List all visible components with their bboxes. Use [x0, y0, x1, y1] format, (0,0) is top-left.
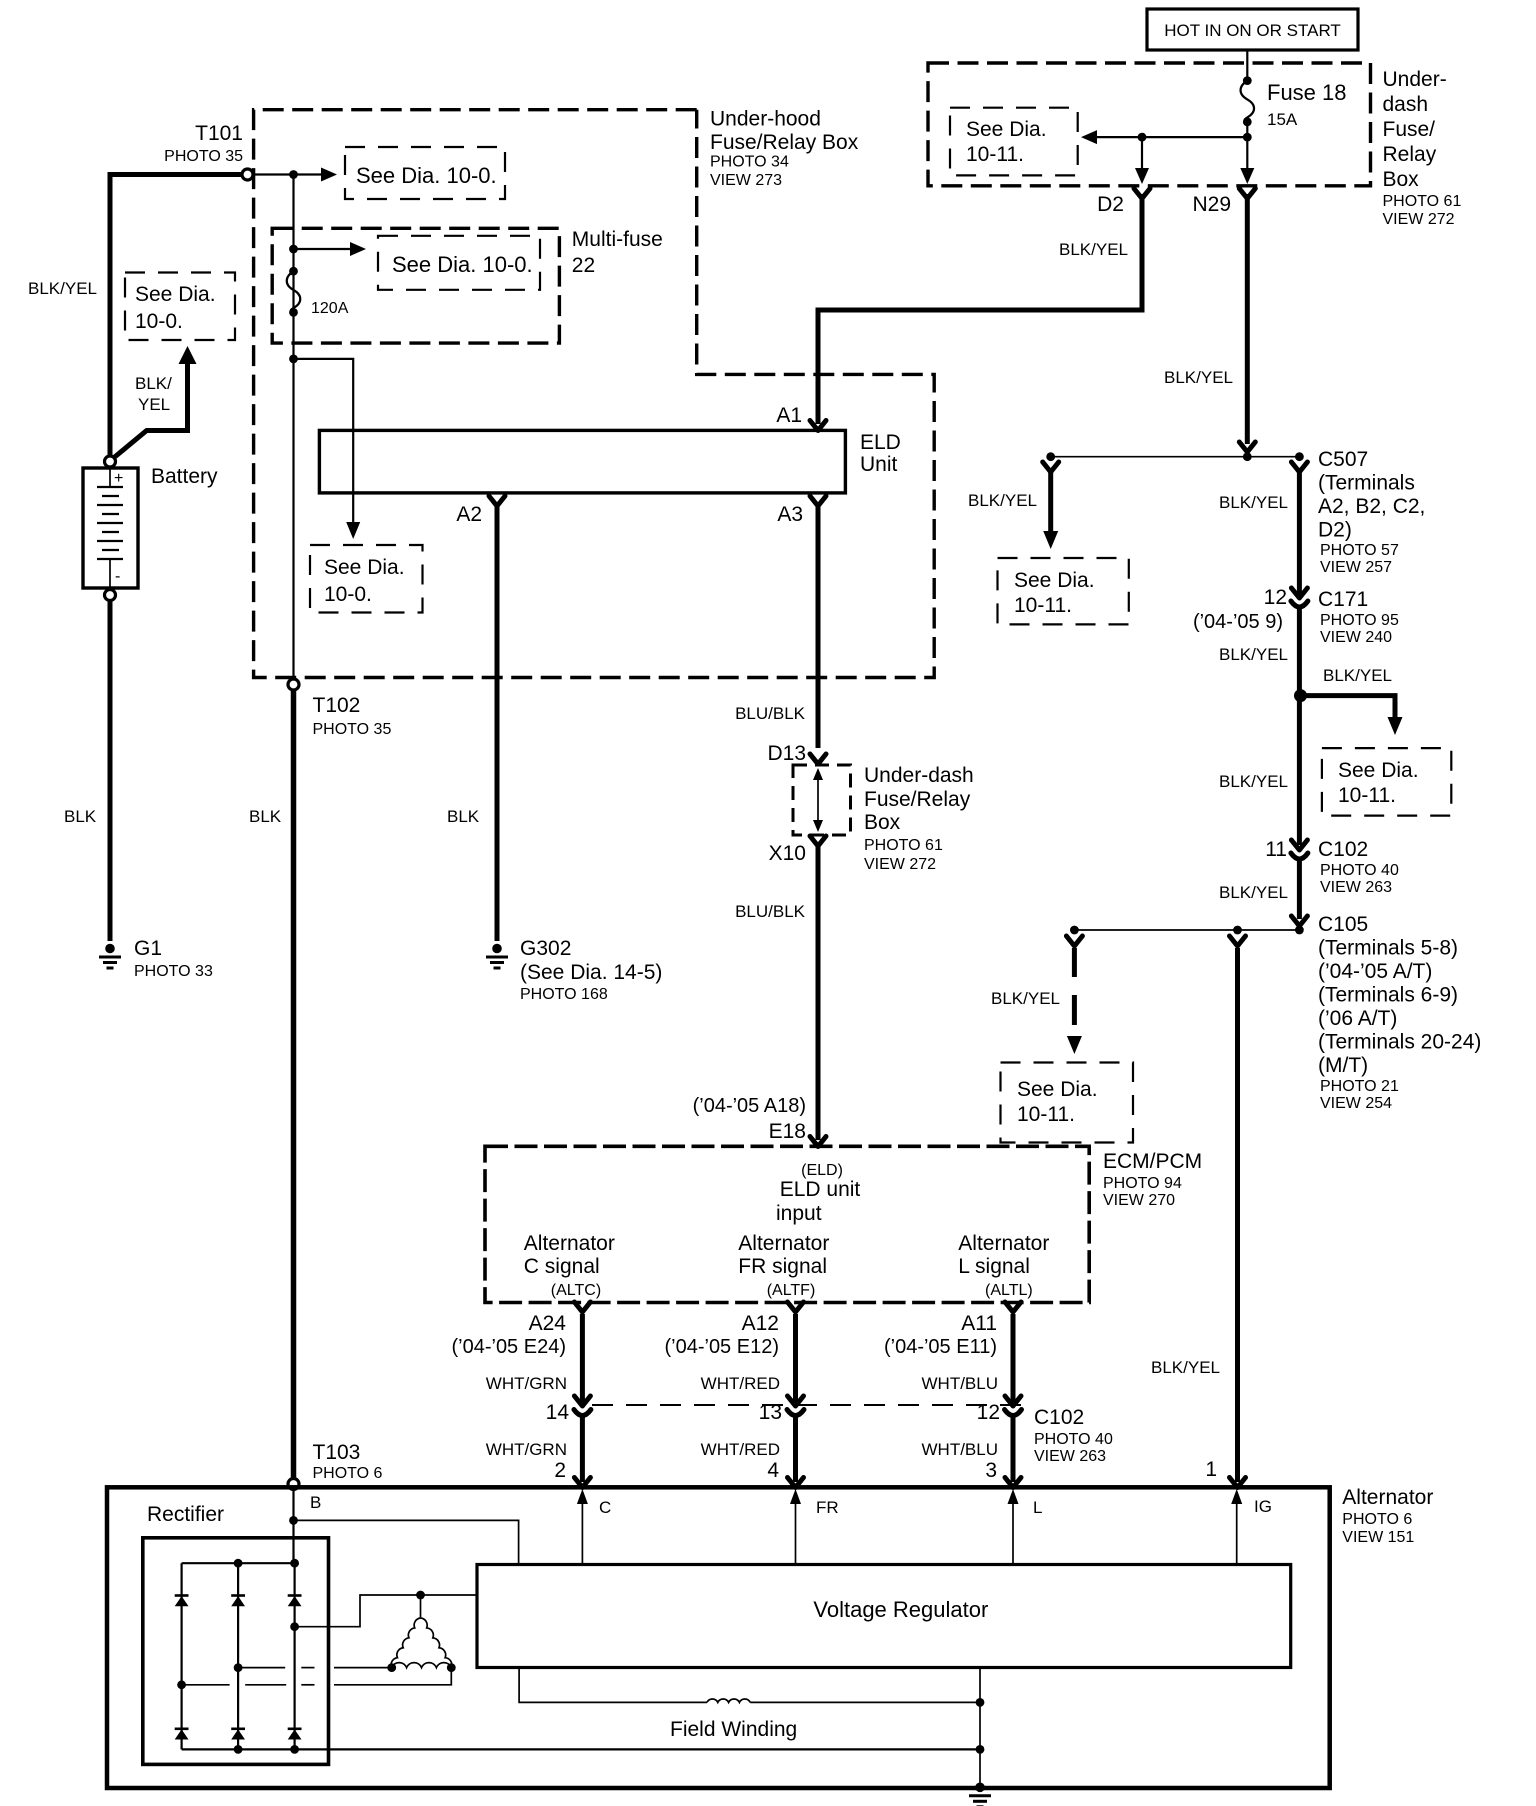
under-dash fuse/relay box (dashed outline)	[928, 63, 1371, 186]
See Dia. 10-11. reference box (branch 1)	[998, 558, 1129, 624]
svg-text:dash: dash	[1383, 93, 1429, 116]
chevron at alternator C terminal	[574, 1478, 590, 1488]
arrow VR to IG terminal	[1236, 1502, 1238, 1565]
dashed arrow down to See Dia. 10-11. (ECM branch)	[1072, 948, 1077, 977]
wire C102 to C105 line	[1297, 858, 1302, 919]
arrow VR to FR terminal	[795, 1502, 797, 1565]
svg-text:BLK: BLK	[447, 807, 480, 826]
svg-text:T102: T102	[313, 694, 361, 717]
svg-text:HOT IN ON OR START: HOT IN ON OR START	[1164, 21, 1341, 40]
svg-text:Fuse/: Fuse/	[1383, 118, 1436, 141]
svg-text:PHOTO 35: PHOTO 35	[164, 148, 243, 165]
svg-text:Field Winding: Field Winding	[670, 1718, 797, 1741]
wire bottom rail to ground node	[295, 1748, 980, 1750]
See Dia. 10-0. reference box (multi-fuse)	[378, 236, 540, 290]
svg-text:12: 12	[1264, 586, 1287, 609]
svg-text:(ALTC): (ALTC)	[551, 1282, 601, 1299]
arrow down to See Dia. 10-11. (left branch)	[1048, 468, 1053, 533]
svg-text:C: C	[599, 1498, 611, 1517]
svg-text:BLK: BLK	[64, 807, 97, 826]
double arrow inside pass-through box	[817, 774, 819, 826]
connector pin A2 chevron	[489, 496, 505, 506]
connector C102 pin 13 chevrons	[788, 1396, 804, 1406]
node junction col2 to stator	[234, 1663, 243, 1672]
svg-text:15A: 15A	[1267, 110, 1298, 129]
ground G302	[486, 944, 508, 968]
svg-text:PHOTO 61: PHOTO 61	[864, 837, 943, 854]
See Dia. 10-11. reference box (fuse 18)	[950, 108, 1078, 176]
svg-text:1: 1	[1205, 1458, 1217, 1481]
arrow VR to C terminal	[581, 1502, 583, 1565]
svg-text:D2): D2)	[1318, 519, 1352, 542]
svg-text:WHT/BLU: WHT/BLU	[922, 1440, 999, 1459]
svg-text:D13: D13	[767, 742, 806, 765]
under-dash fuse/relay pass-through box (small dashed)	[793, 765, 851, 835]
svg-text:See Dia.: See Dia.	[1338, 759, 1419, 782]
svg-text:(ALTL): (ALTL)	[985, 1282, 1033, 1299]
svg-text:BLK/YEL: BLK/YEL	[1219, 772, 1288, 791]
svg-text:(’04-’05 A18): (’04-’05 A18)	[693, 1095, 806, 1117]
svg-text:A12: A12	[742, 1312, 779, 1335]
ground G1	[99, 944, 121, 968]
svg-text:PHOTO 6: PHOTO 6	[1342, 1511, 1412, 1528]
svg-text:G1: G1	[134, 937, 162, 960]
svg-text:VIEW 272: VIEW 272	[864, 856, 936, 873]
svg-text:WHT/RED: WHT/RED	[701, 1374, 780, 1393]
svg-text:VIEW 263: VIEW 263	[1034, 1448, 1106, 1465]
svg-text:BLK/YEL: BLK/YEL	[1164, 368, 1233, 387]
svg-text:input: input	[776, 1202, 822, 1225]
connector pin A1 chevron	[810, 421, 826, 431]
svg-text:(’04-’05 E12): (’04-’05 E12)	[664, 1336, 779, 1358]
See Dia. 10-11. reference box (branch 2)	[1322, 748, 1451, 816]
svg-text:3: 3	[985, 1459, 997, 1482]
wire fuse to N29 with junction	[1246, 122, 1248, 170]
wire B from T103 into rectifier	[292, 1490, 294, 1564]
svg-text:Under-dash: Under-dash	[864, 764, 974, 787]
alternator box	[107, 1487, 1330, 1788]
svg-text:See Dia. 10-0.: See Dia. 10-0.	[392, 252, 533, 277]
chevron branch to See Dia (left of C507)	[1043, 462, 1059, 472]
chevron at alternator IG terminal	[1230, 1478, 1246, 1488]
svg-text:+: +	[114, 470, 123, 487]
svg-text:(’04-’05 A/T): (’04-’05 A/T)	[1318, 960, 1432, 983]
svg-text:PHOTO 95: PHOTO 95	[1320, 612, 1399, 629]
svg-text:Under-: Under-	[1383, 68, 1447, 91]
svg-text:L: L	[1033, 1498, 1042, 1517]
arrowhead into See Dia. 10-0. box	[321, 168, 337, 182]
connector pin E18 chevron at ECM	[810, 1137, 826, 1147]
svg-text:4: 4	[767, 1459, 779, 1482]
svg-text:A1: A1	[776, 404, 802, 427]
svg-text:Under-hood: Under-hood	[710, 108, 821, 131]
wire from HOT feed down to fuse 18	[1246, 50, 1248, 81]
svg-text:Box: Box	[1383, 168, 1420, 191]
junction terminal T103	[288, 1479, 299, 1490]
svg-text:(’04-’05 E24): (’04-’05 E24)	[451, 1336, 566, 1358]
svg-text:Alternator: Alternator	[1342, 1486, 1433, 1509]
svg-text:Alternator: Alternator	[738, 1232, 829, 1255]
voltage regulator box	[477, 1565, 1291, 1668]
chevron trunk end at C105	[1291, 916, 1307, 926]
svg-text:10-11.: 10-11.	[1017, 1103, 1075, 1126]
ECM/PCM box (dashed)	[485, 1146, 1089, 1302]
svg-text:C171: C171	[1318, 588, 1368, 611]
HOT IN ON OR START box	[1147, 9, 1358, 50]
wire C507 tie line	[1051, 456, 1300, 458]
ELD unit box	[319, 430, 845, 493]
svg-text:PHOTO 61: PHOTO 61	[1383, 193, 1462, 210]
svg-text:(Terminals 20-24): (Terminals 20-24)	[1318, 1031, 1481, 1054]
svg-text:BLU/BLK: BLU/BLK	[735, 704, 806, 723]
svg-text:G302: G302	[520, 937, 571, 960]
svg-text:VIEW 273: VIEW 273	[710, 172, 782, 189]
svg-text:(’06 A/T): (’06 A/T)	[1318, 1007, 1397, 1030]
svg-text:PHOTO 34: PHOTO 34	[710, 154, 789, 171]
svg-text:-: -	[115, 568, 120, 585]
field winding coil	[707, 1699, 750, 1702]
svg-text:ELD: ELD	[860, 431, 901, 454]
See Dia. 10-0. reference box (battery)	[125, 273, 235, 341]
svg-text:11: 11	[1265, 838, 1287, 861]
svg-text:VIEW 263: VIEW 263	[1320, 879, 1392, 896]
wire A11 to C102 pin 12 (WHT/BLU)	[1011, 1314, 1016, 1404]
svg-text:10-11.: 10-11.	[966, 143, 1024, 166]
chevron C105 middle branch (IG feed)	[1230, 936, 1246, 946]
svg-text:(ALTF): (ALTF)	[767, 1282, 816, 1299]
svg-text:PHOTO 35: PHOTO 35	[313, 721, 392, 738]
svg-text:WHT/RED: WHT/RED	[701, 1440, 780, 1459]
wire C105 tie line	[1074, 929, 1299, 931]
svg-text:2: 2	[554, 1459, 566, 1482]
svg-text:(Terminals 6-9): (Terminals 6-9)	[1318, 984, 1458, 1007]
wire trunk C507 to C171 (BLK/YEL)	[1297, 468, 1302, 596]
svg-text:BLK/YEL: BLK/YEL	[968, 491, 1037, 510]
wire N29 down to C507 tie point (BLK/YEL)	[1245, 194, 1250, 444]
wire apex tap down to delta apex	[420, 1595, 422, 1618]
node junction stator apex tap	[416, 1591, 425, 1600]
See Dia. 10-0. reference box (top)	[345, 147, 505, 199]
diode D5 (lower col2)	[231, 1729, 245, 1740]
svg-text:WHT/GRN: WHT/GRN	[486, 1440, 567, 1459]
svg-text:BLU/BLK: BLU/BLK	[735, 902, 806, 921]
wire ELD A3 to D13 (BLU/BLK)	[816, 503, 821, 748]
field winding wire from VR	[519, 1668, 707, 1703]
connector C102 inline chevrons (trunk)	[1291, 840, 1307, 850]
diode D6 (lower col3)	[288, 1729, 302, 1740]
battery positive terminal circle	[105, 456, 116, 467]
svg-text:PHOTO 33: PHOTO 33	[134, 963, 213, 980]
chevron at alternator FR terminal	[788, 1478, 804, 1488]
svg-text:BLK/YEL: BLK/YEL	[1151, 1358, 1220, 1377]
svg-text:WHT/BLU: WHT/BLU	[922, 1374, 999, 1393]
svg-text:BLK/YEL: BLK/YEL	[1219, 493, 1288, 512]
svg-text:PHOTO 40: PHOTO 40	[1034, 1431, 1113, 1448]
rectifier column 1	[181, 1563, 183, 1749]
svg-text:D2: D2	[1097, 193, 1124, 216]
branch arrow right to See Dia. 10-11.	[1301, 696, 1396, 719]
chevron N29 wire end at C507	[1239, 442, 1255, 452]
svg-text:VIEW 272: VIEW 272	[1383, 211, 1455, 228]
svg-text:(ELD): (ELD)	[801, 1162, 843, 1179]
svg-text:A2: A2	[456, 503, 482, 526]
wire col2 to delta left corner (with crossover gaps)	[238, 1667, 285, 1669]
wire junction down to D2	[1141, 137, 1143, 170]
svg-text:T103: T103	[313, 1441, 361, 1464]
svg-text:Box: Box	[864, 811, 901, 834]
svg-text:Rectifier: Rectifier	[147, 1503, 224, 1526]
wire X10 to E18 (BLU/BLK)	[816, 843, 821, 1140]
svg-text:BLK: BLK	[249, 807, 282, 826]
svg-text:10-11.: 10-11.	[1338, 784, 1396, 807]
stator delta winding	[391, 1618, 420, 1668]
svg-text:VIEW 257: VIEW 257	[1320, 559, 1392, 576]
svg-text:VIEW 270: VIEW 270	[1103, 1192, 1175, 1209]
wire C171 to BLK/YEL junction	[1297, 606, 1302, 845]
svg-text:See Dia.: See Dia.	[966, 118, 1047, 141]
chevron at alternator L terminal	[1005, 1478, 1021, 1488]
wire branch down from T101 line to multi-fuse	[292, 175, 294, 680]
svg-text:PHOTO 57: PHOTO 57	[1320, 542, 1399, 559]
wire field winding to ground node	[750, 1701, 980, 1703]
svg-text:120A: 120A	[311, 300, 349, 317]
svg-text:(Terminals: (Terminals	[1318, 472, 1415, 495]
svg-text:FR: FR	[816, 1498, 839, 1517]
svg-text:14: 14	[546, 1401, 570, 1424]
wire D2 to ELD A1 (BLK/YEL)	[818, 194, 1142, 424]
node junction col1 to stator	[177, 1680, 186, 1689]
connector pin A11 chevron	[1005, 1302, 1021, 1312]
arrow VR to L terminal	[1012, 1502, 1014, 1565]
svg-text:PHOTO 40: PHOTO 40	[1320, 862, 1399, 879]
svg-text:T101: T101	[195, 122, 243, 145]
connector C171 inline chevrons	[1291, 588, 1307, 598]
svg-text:C507: C507	[1318, 448, 1368, 471]
svg-text:BLK/YEL: BLK/YEL	[1059, 240, 1128, 259]
svg-text:BLK/YEL: BLK/YEL	[1219, 883, 1288, 902]
rectifier column 2	[237, 1563, 239, 1749]
wire branch to See Dia. 10-0. arrow (down through ELD box)	[294, 359, 354, 523]
battery symbol	[83, 467, 138, 589]
svg-text:A2, B2, C2,: A2, B2, C2,	[1318, 495, 1425, 518]
battery arrow to See Dia. (BLK/YEL)	[111, 362, 188, 460]
svg-text:Unit: Unit	[860, 453, 898, 476]
rectifier top rail	[182, 1562, 295, 1564]
wire col3 to stator apex and VR	[295, 1595, 477, 1627]
svg-text:Fuse/Relay: Fuse/Relay	[864, 788, 971, 811]
svg-text:PHOTO 168: PHOTO 168	[520, 986, 608, 1003]
wire battery positive to T101 (BLK/YEL)	[110, 175, 243, 462]
svg-text:(Terminals 5-8): (Terminals 5-8)	[1318, 937, 1458, 960]
svg-text:BLK/YEL: BLK/YEL	[28, 279, 97, 298]
svg-text:(’04-’05 E11): (’04-’05 E11)	[884, 1336, 997, 1358]
node junction above D2	[1138, 133, 1147, 142]
node junction dot (branch to See Dia)	[1294, 689, 1307, 702]
node junction B tap	[289, 1516, 298, 1525]
svg-text:BLK/YEL: BLK/YEL	[1323, 666, 1392, 685]
svg-text:C105: C105	[1318, 913, 1368, 936]
svg-text:VIEW 151: VIEW 151	[1342, 1529, 1414, 1546]
node junction multi-fuse tap	[289, 245, 298, 254]
See Dia. 10-0. reference box (lower)	[310, 545, 423, 613]
svg-text:(M/T): (M/T)	[1318, 1054, 1368, 1077]
multi-fuse 22 box (dashed)	[272, 228, 559, 343]
wire A24 to C102 pin 14 (WHT/GRN)	[580, 1314, 585, 1404]
rectifier column 3	[294, 1563, 296, 1749]
battery negative terminal circle	[105, 590, 116, 601]
svg-text:PHOTO 6: PHOTO 6	[313, 1465, 383, 1482]
wire VR to ground	[979, 1668, 981, 1788]
node junction at x293 y174	[289, 170, 298, 179]
connector C102 dashed tie line	[592, 1404, 1030, 1406]
svg-text:WHT/GRN: WHT/GRN	[486, 1374, 567, 1393]
svg-text:Alternator: Alternator	[524, 1232, 615, 1255]
rectifier box	[143, 1538, 329, 1765]
svg-text:Voltage Regulator: Voltage Regulator	[813, 1597, 988, 1622]
chevron C105 left branch	[1066, 936, 1082, 946]
svg-text:See Dia.: See Dia.	[135, 283, 216, 306]
svg-text:Multi-fuse: Multi-fuse	[572, 228, 663, 251]
diode D3 (upper col3)	[288, 1596, 302, 1607]
svg-text:10-11.: 10-11.	[1014, 594, 1072, 617]
wire B tap to voltage regulator	[294, 1520, 519, 1564]
svg-text:ELD unit: ELD unit	[780, 1178, 861, 1201]
wire col1 to delta right corner (with crossover gaps)	[182, 1684, 230, 1686]
svg-text:BLK/YEL: BLK/YEL	[1219, 645, 1288, 664]
svg-text:10-0.: 10-0.	[324, 583, 372, 606]
fuse 120A element	[289, 267, 298, 276]
junction terminal T102	[288, 679, 299, 690]
rectifier bottom rail	[182, 1748, 295, 1750]
connector pin D13 chevron	[810, 754, 826, 764]
connector pin N29 chevron	[1239, 189, 1255, 199]
svg-text:Relay: Relay	[1383, 143, 1437, 166]
svg-text:A3: A3	[777, 503, 803, 526]
svg-text:C signal: C signal	[524, 1255, 600, 1278]
diode D1 (upper col1)	[175, 1596, 189, 1607]
wire C105 to alternator IG (BLK/YEL)	[1235, 948, 1240, 1482]
svg-text:22: 22	[572, 254, 595, 277]
svg-text:N29: N29	[1192, 193, 1231, 216]
svg-text:Alternator: Alternator	[958, 1232, 1049, 1255]
svg-text:C102: C102	[1318, 838, 1368, 861]
svg-text:IG: IG	[1254, 1497, 1272, 1516]
svg-text:BLK/YEL: BLK/YEL	[991, 989, 1060, 1008]
connector pin X10 chevron	[810, 836, 826, 846]
fuse F18 element	[1241, 81, 1255, 122]
connector C102 pin 14 chevrons	[574, 1396, 590, 1406]
svg-text:10-0.: 10-0.	[135, 310, 183, 333]
diode D4 (lower col1)	[175, 1729, 189, 1740]
svg-text:X10: X10	[769, 842, 806, 865]
svg-text:See Dia. 10-0.: See Dia. 10-0.	[356, 163, 497, 188]
svg-text:PHOTO 94: PHOTO 94	[1103, 1175, 1182, 1192]
svg-text:PHOTO 21: PHOTO 21	[1320, 1078, 1399, 1095]
wire A12 to C102 pin 13 (WHT/RED)	[793, 1314, 798, 1404]
svg-text:See Dia.: See Dia.	[324, 556, 405, 579]
wire fuse node to See Dia. 10-11. arrow	[1096, 136, 1247, 138]
ground (alternator case)	[969, 1783, 991, 1806]
wire T102 to T103 (BLK)	[291, 690, 297, 1479]
svg-text:VIEW 254: VIEW 254	[1320, 1095, 1392, 1112]
svg-text:C102: C102	[1034, 1406, 1084, 1429]
under-hood fuse/relay box (dashed outline)	[254, 110, 935, 678]
wire pin 13 to alternator FR (WHT/RED)	[793, 1414, 798, 1482]
wire T101 to See Dia. 10-0. arrow	[253, 173, 322, 175]
svg-text:A24: A24	[529, 1312, 567, 1335]
wire pin 12 to alternator L (WHT/BLU)	[1011, 1414, 1016, 1482]
connector C102 pin 12 chevrons	[1005, 1396, 1021, 1406]
svg-text:(See Dia. 14-5): (See Dia. 14-5)	[520, 961, 662, 984]
svg-text:ECM/PCM: ECM/PCM	[1103, 1150, 1202, 1173]
svg-text:VIEW 240: VIEW 240	[1320, 629, 1392, 646]
wire pin 14 to alternator C (WHT/GRN)	[580, 1414, 585, 1482]
connector pin A24 chevron	[574, 1302, 590, 1312]
connector pin A12 chevron	[788, 1302, 804, 1312]
svg-text:A11: A11	[961, 1312, 997, 1335]
svg-text:See Dia.: See Dia.	[1014, 569, 1095, 592]
node junction col3 to stator	[290, 1622, 299, 1631]
diode D2 (upper col2)	[231, 1596, 245, 1607]
connector pin A3 chevron	[810, 496, 826, 506]
svg-text:E18: E18	[769, 1120, 806, 1143]
chevron trunk below C507 line	[1291, 462, 1307, 472]
junction terminal T101	[242, 169, 253, 180]
svg-text:Fuse 18: Fuse 18	[1267, 80, 1347, 105]
svg-text:Battery: Battery	[151, 465, 218, 488]
connector pin D2 chevron	[1134, 189, 1150, 199]
svg-text:L signal: L signal	[958, 1255, 1030, 1278]
node junction below multi-fuse box	[289, 355, 298, 364]
wire ELD A2 to G302 (BLK)	[495, 503, 500, 941]
svg-text:Fuse/Relay Box: Fuse/Relay Box	[710, 131, 859, 154]
See Dia. 10-11. reference box (branch 3)	[1001, 1063, 1134, 1143]
wire battery negative to G1 (BLK)	[108, 601, 113, 942]
svg-text:B: B	[310, 1493, 321, 1512]
svg-text:(’04-’05 9): (’04-’05 9)	[1193, 611, 1283, 633]
arrow to See Dia. 10-0. (multi-fuse)	[294, 248, 352, 250]
svg-text:YEL: YEL	[138, 395, 170, 414]
svg-text:FR signal: FR signal	[738, 1255, 827, 1278]
svg-text:BLK/: BLK/	[135, 374, 172, 393]
svg-text:See Dia.: See Dia.	[1017, 1078, 1098, 1101]
